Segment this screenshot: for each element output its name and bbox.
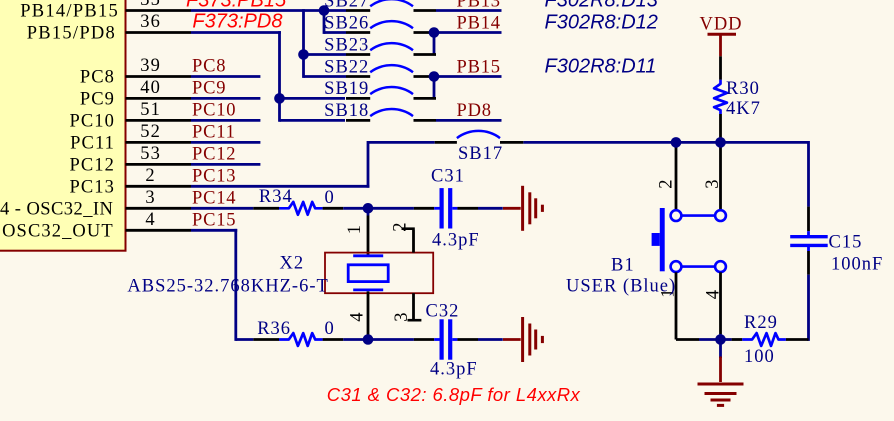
svg-text:39: 39 — [140, 56, 161, 76]
svg-text:PB14: PB14 — [457, 13, 501, 33]
svg-text:C15: C15 — [829, 233, 863, 253]
svg-text:PD8: PD8 — [457, 101, 492, 121]
svg-text:4 - OSC32_IN: 4 - OSC32_IN — [0, 200, 113, 220]
svg-text:PC11: PC11 — [192, 123, 236, 143]
svg-text:C31: C31 — [431, 167, 465, 187]
svg-text:35: 35 — [140, 0, 161, 10]
svg-text:R29: R29 — [744, 313, 778, 333]
svg-text:PC8: PC8 — [80, 68, 115, 88]
svg-text:2: 2 — [145, 166, 155, 186]
svg-text:SB19: SB19 — [324, 79, 369, 99]
svg-text:PC10: PC10 — [69, 112, 115, 132]
svg-text:USER (Blue): USER (Blue) — [566, 277, 676, 297]
svg-text:R36: R36 — [257, 319, 291, 339]
svg-text:R30: R30 — [726, 79, 760, 99]
svg-text:0: 0 — [325, 188, 335, 208]
svg-text:C31 & C32: 6.8pF for L4xxRx: C31 & C32: 6.8pF for L4xxRx — [327, 384, 581, 405]
svg-text:PC9: PC9 — [192, 79, 226, 99]
svg-text:PC8: PC8 — [192, 57, 226, 77]
svg-text:F302R8:D12: F302R8:D12 — [545, 11, 658, 33]
svg-text:PC10: PC10 — [192, 101, 236, 121]
svg-text:PC13: PC13 — [192, 166, 236, 186]
svg-text:4.3pF: 4.3pF — [430, 360, 478, 380]
svg-text:2: 2 — [391, 221, 411, 231]
svg-text:53: 53 — [140, 144, 161, 164]
svg-text:PB15: PB15 — [457, 57, 501, 77]
svg-text:36: 36 — [140, 12, 161, 32]
svg-text:PC12: PC12 — [69, 156, 115, 176]
svg-text:VDD: VDD — [699, 15, 742, 35]
svg-text:SB17: SB17 — [458, 144, 503, 164]
svg-text:40: 40 — [140, 78, 161, 98]
svg-text:F373:PD8: F373:PD8 — [192, 11, 282, 33]
svg-text:PC11: PC11 — [70, 134, 115, 154]
svg-text:OSC32_OUT: OSC32_OUT — [2, 222, 114, 242]
svg-text:F302R8:D11: F302R8:D11 — [545, 55, 657, 77]
svg-text:PC9: PC9 — [80, 90, 115, 110]
svg-text:PC13: PC13 — [69, 178, 115, 198]
svg-text:B1: B1 — [611, 255, 635, 275]
svg-text:PB14/PB15: PB14/PB15 — [20, 2, 119, 22]
svg-text:SB23: SB23 — [324, 35, 369, 55]
svg-text:PC12: PC12 — [192, 145, 236, 165]
svg-text:100: 100 — [744, 347, 775, 367]
svg-text:4.3pF: 4.3pF — [432, 231, 480, 251]
svg-text:4: 4 — [704, 289, 724, 299]
svg-text:52: 52 — [140, 122, 161, 142]
svg-text:ABS25-32.768KHZ-6-T: ABS25-32.768KHZ-6-T — [127, 277, 328, 297]
svg-text:PB15/PD8: PB15/PD8 — [27, 24, 116, 44]
svg-text:SB26: SB26 — [324, 13, 369, 33]
svg-text:F302R8:D13: F302R8:D13 — [545, 0, 658, 11]
svg-text:3: 3 — [703, 178, 723, 188]
svg-text:PC15: PC15 — [192, 210, 236, 230]
svg-text:3: 3 — [145, 188, 155, 208]
svg-text:4: 4 — [145, 210, 155, 230]
svg-text:51: 51 — [140, 100, 161, 120]
svg-text:4: 4 — [348, 311, 368, 321]
svg-text:4K7: 4K7 — [726, 99, 761, 119]
svg-text:X2: X2 — [280, 254, 305, 274]
svg-text:2: 2 — [657, 178, 677, 188]
svg-text:3: 3 — [392, 311, 412, 321]
svg-text:C32: C32 — [426, 302, 460, 322]
svg-text:R34: R34 — [259, 187, 293, 207]
svg-text:0: 0 — [325, 319, 335, 339]
svg-text:SB22: SB22 — [324, 57, 369, 77]
svg-text:PC14: PC14 — [192, 188, 236, 208]
svg-text:SB18: SB18 — [324, 101, 369, 121]
svg-text:PB13: PB13 — [457, 0, 501, 11]
svg-text:1: 1 — [345, 224, 365, 234]
svg-text:100nF: 100nF — [831, 255, 883, 275]
svg-text:SB27: SB27 — [324, 0, 369, 11]
